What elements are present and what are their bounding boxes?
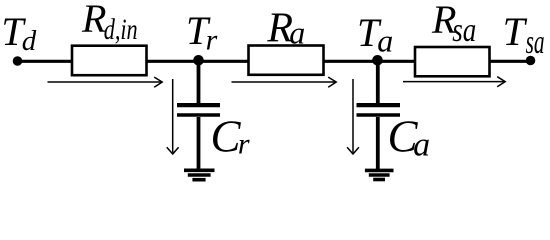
node Tsa terminal dot [526, 56, 536, 66]
wire Ta to capacitor Ca [376, 61, 380, 103]
ground below Ca [365, 170, 394, 179]
capacitor Cr plates [177, 105, 220, 115]
label Rdin [81, 0, 138, 46]
label Td [1, 9, 36, 57]
svg-text:d: d [22, 25, 37, 57]
svg-text:R: R [81, 0, 106, 41]
current arrow under Rd,in [48, 77, 163, 87]
svg-text:T: T [503, 9, 528, 54]
label Rsa [431, 0, 476, 49]
current arrow under Rsa [403, 77, 505, 87]
capacitor Ca plates [357, 105, 401, 115]
wire Tr to capacitor Cr [197, 61, 201, 103]
label Ca [388, 111, 431, 163]
wire Cr to ground [197, 117, 201, 169]
svg-text:r: r [206, 23, 218, 56]
node Tr junction dot [193, 55, 204, 66]
resistor Rd,in box [72, 46, 147, 75]
label Tr [186, 8, 218, 56]
resistor Rsa box [415, 47, 490, 76]
svg-text:a: a [413, 127, 430, 164]
wire main horizontal [18, 60, 532, 63]
current arrow beside Ca [347, 79, 359, 154]
resistor Ra box [249, 46, 324, 75]
svg-text:sa: sa [526, 24, 545, 61]
label Ta [357, 10, 393, 58]
label Tsa [503, 9, 545, 61]
svg-text:a: a [377, 22, 393, 58]
svg-text:C: C [211, 112, 242, 162]
label Ra [266, 6, 305, 52]
svg-text:sa: sa [452, 12, 476, 49]
current arrow beside Cr [167, 79, 179, 154]
node Td terminal dot [13, 56, 23, 66]
wire Ca to ground [376, 117, 380, 169]
svg-text:d,in: d,in [104, 13, 138, 46]
current arrow under Ra [232, 77, 337, 87]
label Cr [211, 112, 250, 162]
ground below Cr [184, 170, 215, 179]
svg-text:r: r [238, 127, 250, 160]
svg-text:a: a [289, 15, 305, 51]
node Ta junction dot [372, 55, 383, 66]
